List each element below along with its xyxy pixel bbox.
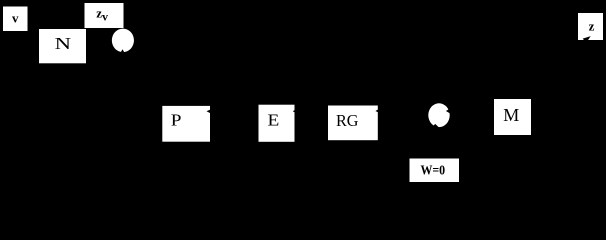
wire arrowhead into block z from lower-left (583, 36, 591, 43)
block RG (regulator) (328, 106, 378, 141)
block E (259, 105, 295, 142)
block W=0 (setpoint) (410, 159, 460, 183)
wire arrowhead into block RG from the right (375, 109, 378, 112)
wire arrowhead into S2 from below (W=0) (431, 124, 441, 129)
svg-text:v: v (12, 11, 19, 26)
svg-text:W=0: W=0 (420, 164, 445, 179)
block z_v (85, 3, 124, 28)
block z (output) (578, 13, 603, 40)
svg-text:M: M (503, 105, 519, 125)
block M (measurement) (494, 99, 531, 135)
summing junction S1 (112, 29, 134, 53)
wire arrowhead into block E from the right (293, 110, 296, 113)
svg-text:RG: RG (336, 111, 359, 130)
svg-text:P: P (171, 110, 182, 129)
block v (disturbance input) (3, 7, 28, 32)
wire arrowhead into block P from the right (207, 110, 211, 114)
summing junction S2 (428, 103, 449, 127)
svg-text:z: z (589, 18, 595, 33)
block P (162, 106, 210, 142)
block N (39, 29, 86, 63)
svg-text:E: E (268, 110, 280, 129)
wire arrowhead into S2 from the right (446, 108, 451, 114)
wire arrowhead into S1 from below (121, 49, 125, 52)
svg-text:N: N (55, 34, 71, 53)
